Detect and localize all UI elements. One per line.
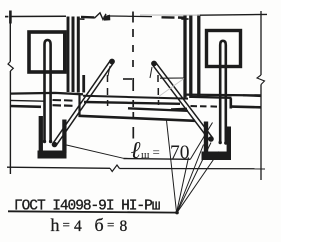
left embedded plate rectangle: [29, 32, 65, 72]
joint line 3: [128, 108, 188, 111]
thin tick below D2 cap: [150, 67, 152, 78]
weld parameters text: [51, 215, 128, 235]
left slab thick ledge: [10, 105, 41, 108]
svg-text:70: 70: [170, 143, 190, 164]
leader fan C: [177, 145, 204, 213]
wire top-left border horizontal: [10, 15, 66, 17]
left panel bar 1: [67, 17, 70, 93]
svg-text:ℓ: ℓ: [131, 138, 141, 164]
label shelf line: [124, 158, 191, 161]
svg-text:=: =: [63, 217, 70, 232]
right U staple: [202, 122, 232, 161]
joint line 1: [83, 96, 188, 99]
leader fan E: [177, 152, 219, 213]
svg-text:=: =: [107, 217, 114, 232]
left hidden dashes row 2: [53, 104, 73, 107]
left panel bar 3: [77, 17, 80, 93]
small horizontal dash: [123, 78, 132, 80]
svg-text:4: 4: [74, 218, 82, 235]
leader from left staple: [67, 145, 124, 158]
diagonal bar D2: [151, 61, 214, 142]
right corner line: [192, 97, 232, 98]
left panel bar 2: [72, 17, 75, 93]
right hidden dashes: [171, 106, 217, 109]
leader fan A: [167, 121, 177, 213]
leader shelf to weld: [191, 123, 213, 160]
left hidden dashes row 1: [53, 99, 73, 102]
hidden dashed vertical left of axis: [107, 75, 109, 106]
wire right border vertical with break: [257, 11, 265, 180]
wire left border vertical with break: [5, 11, 13, 175]
svg-text:h: h: [51, 215, 60, 235]
wire top-right border horizontal: [200, 13, 267, 16]
thin tick below D1 cap: [108, 66, 110, 76]
joint line 2: [84, 102, 180, 104]
right panel bar 3: [197, 15, 200, 99]
leader fan B: [177, 158, 189, 213]
left slab thin hidden line: [10, 99, 44, 102]
wire bottom border horizontal with break: [7, 165, 265, 172]
right hairpin loop: [219, 41, 228, 145]
left panel short bar: [82, 75, 85, 93]
right panel tick: [181, 18, 188, 20]
right panel bar 1: [183, 15, 186, 98]
svg-text:б: б: [95, 215, 104, 235]
right panel bar 2: [189, 15, 192, 98]
svg-text:=: =: [153, 145, 160, 160]
slab thick bottom line: [79, 116, 196, 121]
diagonal bar D1: [52, 59, 115, 148]
left hairpin loop: [43, 40, 53, 143]
faint top edge line: [140, 14, 200, 16]
top break symbol: [81, 13, 110, 21]
thin line right of D2: [160, 77, 186, 79]
slab top line right: [186, 93, 261, 96]
left panel tick: [80, 18, 85, 20]
slab top line left: [10, 93, 83, 94]
gap left vertical: [78, 93, 80, 117]
right step vertical: [230, 98, 233, 108]
right embedded plate rectangle: [207, 31, 241, 67]
weld length label: [131, 138, 190, 164]
right edge thick segment: [243, 94, 261, 97]
ghost diagonal: [158, 79, 184, 98]
hidden dashed vertical right of axis: [157, 75, 160, 105]
right slab thick ledge: [231, 105, 261, 108]
text underline with leader dot: [8, 211, 179, 215]
svg-text:ш: ш: [141, 149, 150, 161]
top joint dashed line: [110, 16, 186, 18]
svg-text:ГОСТ I4098-9I НI-Рш: ГОСТ I4098-9I НI-Рш: [14, 199, 160, 215]
leader fan D: [177, 143, 211, 213]
svg-text:8: 8: [120, 218, 128, 235]
left U staple: [38, 116, 67, 159]
axis vertical dashed line: [132, 12, 134, 139]
